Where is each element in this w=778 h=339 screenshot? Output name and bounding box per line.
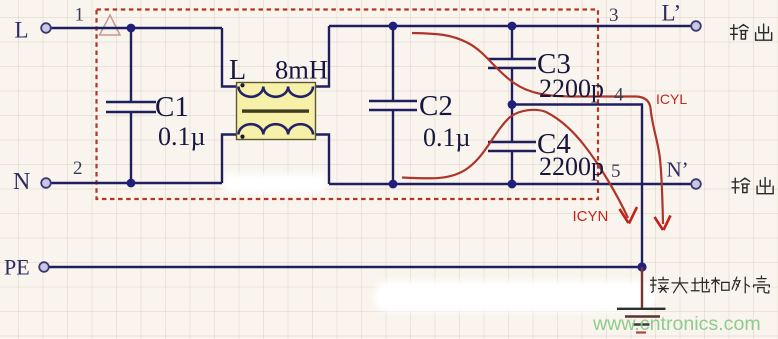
- svg-text:ICYL: ICYL: [656, 91, 687, 107]
- choke polarity dot top: [240, 83, 244, 87]
- terminal N-prime: [691, 179, 701, 189]
- ICYL arrowhead: [655, 216, 671, 231]
- wire C3 C4 branch: [511, 26, 513, 184]
- ICYL current path curve: [412, 33, 663, 224]
- svg-text:ICYN: ICYN: [573, 208, 609, 225]
- svg-text:C1: C1: [155, 91, 189, 123]
- svg-text:N: N: [13, 169, 30, 195]
- junction node C2 top: [389, 22, 398, 31]
- wire L rail left: [51, 27, 222, 29]
- capacitor C1: [106, 102, 156, 112]
- junction node C4 bottom: [508, 180, 517, 189]
- char he: [712, 278, 729, 293]
- svg-text:PE: PE: [4, 255, 30, 280]
- wire choke bottom-right drop: [313, 135, 329, 185]
- svg-text:8mH: 8mH: [275, 55, 328, 85]
- dashed filter boundary box: [97, 10, 599, 200]
- svg-text:L: L: [229, 55, 246, 86]
- junction node C3 top: [508, 22, 517, 31]
- svg-text:www.cntronics.com: www.cntronics.com: [592, 313, 761, 335]
- char chu top: [756, 24, 772, 40]
- ERC marker triangle: [100, 15, 121, 35]
- wire choke top-right rise: [313, 26, 329, 87]
- svg-text:3: 3: [609, 5, 619, 26]
- svg-text:L’: L’: [662, 1, 682, 26]
- svg-text:2200p: 2200p: [539, 152, 604, 181]
- wire C2 branch: [392, 26, 394, 184]
- svg-text:0.1µ: 0.1µ: [423, 123, 471, 152]
- svg-text:1: 1: [75, 5, 85, 26]
- wire choke top-left drop: [222, 28, 239, 87]
- char wai: [732, 277, 749, 293]
- terminal L: [41, 23, 51, 33]
- junction node C1 bottom: [127, 179, 136, 188]
- ICYN arrowhead: [620, 207, 638, 224]
- ground lead: [641, 267, 643, 308]
- svg-text:2: 2: [73, 158, 83, 179]
- svg-text:L: L: [15, 18, 29, 43]
- choke core bar: [242, 109, 309, 112]
- choke top winding: [239, 87, 314, 97]
- svg-text:0.1µ: 0.1µ: [158, 122, 206, 151]
- terminal N: [41, 178, 51, 188]
- choke bottom winding: [239, 124, 314, 134]
- capacitor C3: [488, 59, 536, 68]
- svg-text:C2: C2: [419, 90, 453, 122]
- wire C1 branch: [130, 28, 132, 183]
- junction node C2 bottom: [389, 180, 398, 189]
- svg-text:5: 5: [611, 161, 621, 182]
- wire PE rail: [49, 266, 642, 268]
- char ke: [754, 276, 770, 293]
- wire Y-cap midpoint to earth: [512, 105, 642, 268]
- wire choke bottom-left drop: [222, 135, 239, 184]
- svg-text:4: 4: [614, 85, 624, 106]
- char di: [691, 278, 709, 292]
- chinese label shuchu top (output): [731, 24, 772, 40]
- svg-text:2200p: 2200p: [539, 74, 604, 103]
- char shu top: [731, 25, 749, 40]
- capacitor C2: [369, 101, 417, 110]
- ground symbol: [617, 309, 666, 333]
- chinese label shuchu bottom (output): [732, 178, 773, 194]
- ICYN current path curve: [402, 110, 628, 218]
- junction node PE earth: [637, 262, 646, 271]
- junction node Y-cap midpoint: [508, 100, 517, 109]
- terminal L-prime: [691, 21, 701, 31]
- char da: [672, 278, 688, 293]
- wire N rail left: [51, 182, 222, 184]
- chinese label connect earth and enclosure: [651, 276, 770, 293]
- white patch bottom center: [374, 281, 656, 312]
- svg-text:N’: N’: [667, 158, 689, 182]
- common-mode choke L body: [237, 83, 316, 140]
- char chu bottom: [757, 178, 773, 194]
- wire N rail right: [329, 183, 696, 185]
- char shu bottom: [732, 178, 750, 193]
- capacitor C4: [488, 142, 536, 151]
- terminal PE: [39, 262, 49, 272]
- junction node C1 top: [127, 24, 136, 33]
- wire L rail right: [329, 25, 696, 27]
- choke polarity dot bottom: [240, 135, 244, 139]
- char jie: [651, 277, 669, 292]
